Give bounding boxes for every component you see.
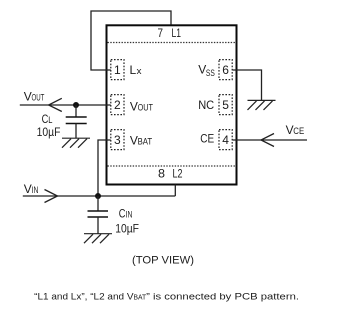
svg-text:1: 1 <box>114 63 121 77</box>
svg-text:NC: NC <box>198 98 214 112</box>
svg-text:CE: CE <box>200 132 214 146</box>
svg-text:4: 4 <box>222 133 229 147</box>
svg-text:V: V <box>24 182 32 196</box>
svg-text:(TOP VIEW): (TOP VIEW) <box>132 255 194 267</box>
svg-text:3: 3 <box>114 133 121 147</box>
svg-text:OUT: OUT <box>32 93 45 103</box>
svg-text:6: 6 <box>222 63 229 77</box>
svg-text:x: x <box>137 66 143 76</box>
svg-text:“L1 and Lx”, “L2 and V: “L1 and Lx”, “L2 and V <box>34 292 134 303</box>
svg-text:5: 5 <box>222 98 229 112</box>
svg-text:SS: SS <box>206 68 215 78</box>
svg-text:” is connected by PCB pattern.: ” is connected by PCB pattern. <box>146 292 299 303</box>
svg-text:IN: IN <box>32 185 39 195</box>
svg-text:OUT: OUT <box>138 102 154 112</box>
svg-text:L: L <box>130 63 137 77</box>
svg-text:L: L <box>48 115 52 125</box>
svg-text:7: 7 <box>158 26 164 40</box>
svg-text:BAT: BAT <box>138 137 153 147</box>
svg-text:CE: CE <box>293 126 304 136</box>
svg-text:IN: IN <box>126 210 133 220</box>
svg-text:L2: L2 <box>173 167 183 181</box>
svg-text:10µF: 10µF <box>115 222 139 236</box>
svg-text:BAT: BAT <box>134 293 147 302</box>
svg-text:10µF: 10µF <box>37 125 61 139</box>
svg-text:8: 8 <box>158 167 165 181</box>
svg-text:2: 2 <box>114 98 121 112</box>
svg-text:V: V <box>24 90 32 104</box>
svg-text:L1: L1 <box>172 26 182 40</box>
